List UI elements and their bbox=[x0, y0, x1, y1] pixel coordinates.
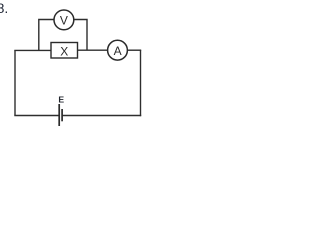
wire: left horizontal into box X bbox=[14, 49, 51, 51]
wire: bottom left horizontal to battery bbox=[14, 115, 59, 117]
wire: ammeter right lead to corner bbox=[128, 49, 141, 51]
wire: voltmeter right lead (across + down) bbox=[75, 20, 88, 51]
svg-text:A: A bbox=[114, 44, 122, 58]
battery E: long plate bbox=[58, 104, 60, 126]
wire: bottom right horizontal from battery bbox=[62, 115, 141, 117]
battery E: short plate bbox=[61, 109, 63, 121]
wire: box X to ammeter bbox=[77, 49, 107, 51]
wire: left vertical bbox=[14, 50, 16, 115]
svg-text:X: X bbox=[60, 45, 68, 59]
wire: right vertical bbox=[140, 50, 142, 116]
voltmeter V bbox=[54, 10, 74, 30]
svg-text:8.: 8. bbox=[0, 0, 8, 16]
wire: voltmeter left lead (down + across) bbox=[39, 20, 54, 51]
svg-text:E: E bbox=[58, 95, 64, 105]
question number 8. bbox=[0, 0, 8, 16]
ammeter A bbox=[108, 40, 128, 60]
svg-text:V: V bbox=[60, 13, 68, 27]
component box X bbox=[51, 43, 78, 59]
